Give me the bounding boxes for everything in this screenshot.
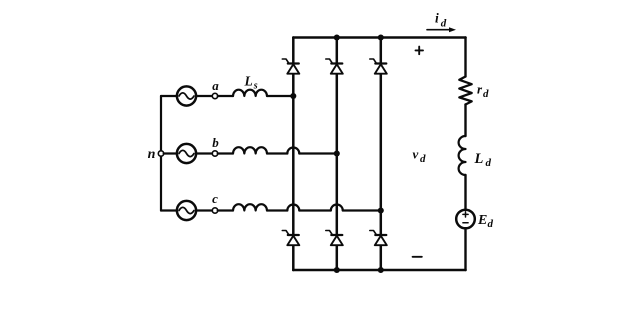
- wire hop: phase b over leg 1: [287, 148, 299, 154]
- label - (dc output polarity bottom): [413, 256, 422, 258]
- svg-text:c: c: [212, 191, 218, 206]
- svg-text:s: s: [253, 81, 258, 92]
- wire: bottom dc bus: [293, 269, 465, 272]
- label Ed: [477, 213, 494, 230]
- wire: left neutral vertical bus: [160, 96, 162, 211]
- wire: hop to leg 3 (phase c): [343, 209, 381, 211]
- wire: inductor to hop at leg 1 (phase c): [267, 209, 287, 211]
- thyristor T4 (bottom, leg 1): [282, 231, 299, 246]
- svg-text:d: d: [488, 218, 494, 230]
- svg-text:n: n: [148, 147, 156, 162]
- node n terminal circle: [158, 151, 163, 156]
- wire: top dc bus: [293, 36, 465, 39]
- dc source Ed: [456, 210, 475, 229]
- wire: right branch top (bus corner to resistor): [464, 38, 466, 77]
- resistor rd: [459, 77, 471, 105]
- inductor Ls phase c: [233, 204, 267, 210]
- junction: leg 2 / bottom bus: [334, 267, 340, 273]
- svg-text:i: i: [435, 11, 439, 26]
- label + (dc output polarity top): [416, 47, 424, 55]
- wire: phase b from n to source: [164, 152, 177, 154]
- wire: phase a from neutral to source: [161, 95, 177, 97]
- source vb: [177, 144, 196, 163]
- wire hop: phase c over leg 2: [331, 205, 343, 211]
- wire: resistor to inductor: [464, 105, 466, 137]
- svg-text:v: v: [413, 147, 419, 162]
- node a terminal circle: [212, 93, 217, 98]
- label rd: [477, 82, 489, 101]
- node b terminal circle: [212, 151, 217, 156]
- wire: source vc to node c: [196, 209, 212, 211]
- inductor Ls phase b: [233, 147, 267, 153]
- junction: phase c / leg 3: [378, 207, 384, 213]
- inductor Ls phase a: [233, 90, 267, 96]
- wire: hop to leg 2 (phase b): [299, 152, 337, 154]
- junction: phase b / leg 2: [334, 150, 340, 156]
- wire hop: phase c over leg 1: [287, 205, 299, 211]
- wire: node c to inductor: [218, 209, 233, 211]
- wire: between hops (phase c): [299, 209, 331, 211]
- label vd: [413, 147, 427, 166]
- svg-text:d: d: [420, 153, 426, 165]
- inductor Ld: [459, 136, 466, 175]
- wire: inductor to hop at leg 1 (phase b): [267, 152, 287, 154]
- junction: phase a / leg 1: [290, 93, 296, 99]
- junction: leg 2 / top bus: [334, 34, 340, 40]
- svg-text:L: L: [244, 74, 253, 89]
- source va: [177, 86, 196, 105]
- thyristor T6 (bottom, leg 2): [326, 231, 343, 246]
- junction: leg 3 / bottom bus: [378, 267, 384, 273]
- label id with arrow: [427, 11, 456, 33]
- wire: source Ed to bottom bus: [464, 228, 466, 270]
- svg-text:d: d: [483, 88, 489, 100]
- svg-text:E: E: [477, 213, 487, 228]
- svg-text:d: d: [441, 18, 447, 30]
- label Ld: [474, 151, 492, 169]
- wire: inductor to leg 1 (phase a): [267, 95, 293, 97]
- wire: phase c from neutral corner to source: [161, 209, 177, 211]
- wire: leg 1 segments: [292, 38, 295, 271]
- thyristor T3 (top, leg 2): [326, 59, 343, 74]
- wire: node b to inductor: [218, 152, 233, 154]
- wire: source va to node a: [196, 95, 212, 97]
- wire: leg 3 segments: [380, 38, 383, 271]
- wire: inductor to source Ed: [464, 175, 466, 210]
- thyristor T1 (top, leg 1): [282, 59, 299, 74]
- thyristor T5 (top, leg 3): [370, 59, 387, 74]
- wire: node a to inductor: [218, 95, 233, 97]
- wire: leg 2 segments: [336, 38, 339, 271]
- svg-text:L: L: [474, 151, 484, 167]
- junction: leg 3 / top bus: [378, 34, 384, 40]
- source vc: [177, 201, 196, 220]
- svg-text:a: a: [212, 78, 219, 93]
- thyristor T2 (bottom, leg 3): [370, 231, 387, 246]
- svg-text:d: d: [486, 157, 492, 169]
- svg-text:b: b: [212, 135, 219, 150]
- wire: source vb to node b: [196, 152, 212, 154]
- node c terminal circle: [212, 208, 217, 213]
- label Ls: [244, 74, 258, 92]
